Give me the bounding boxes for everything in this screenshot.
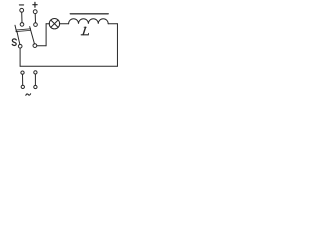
AC binding post left: link wire: [22, 74, 24, 85]
wire: riser up: [45, 24, 47, 46]
wire: left side up to switch: [19, 48, 21, 66]
AC binding post left: bottom terminal: [21, 85, 24, 88]
wire: switch right terminal to riser: [37, 45, 46, 47]
switch S: left support arm: [17, 31, 20, 44]
binding post negative: bottom terminal: [20, 23, 24, 27]
label minus (DC negative terminal mark): [19, 4, 23, 6]
AC binding post right: top terminal: [34, 71, 37, 74]
wire: riser top to lamp: [46, 23, 50, 25]
label tilde (AC mark): [26, 94, 31, 96]
wire: coil to top-right corner: [108, 23, 117, 25]
label plus (DC positive terminal mark): [33, 2, 37, 7]
AC binding post right: bottom terminal: [34, 85, 37, 88]
lamp (circle with X): [49, 19, 59, 29]
switch S: left terminal: [18, 44, 22, 48]
wire: lamp to inductor: [59, 23, 68, 25]
AC binding post left: top terminal: [21, 71, 24, 74]
switch S: blade (double line): [16, 29, 31, 32]
label S: [12, 39, 16, 46]
switch S: right support arm: [30, 27, 35, 44]
binding post positive: bottom terminal: [34, 23, 38, 27]
wire: bottom run: [20, 65, 117, 67]
switch S: right terminal: [33, 44, 37, 48]
label L: [81, 27, 88, 35]
inductor L: iron core bar: [70, 13, 108, 15]
binding post positive: link wire: [34, 14, 36, 23]
wire: right side down: [116, 24, 118, 66]
AC binding post right: link wire: [34, 74, 36, 85]
inductor L: coil (4 humps): [69, 19, 109, 24]
binding post positive: top terminal: [33, 10, 37, 14]
binding post negative: top terminal: [20, 8, 24, 12]
switch S: handle tick: [15, 25, 17, 32]
binding post negative: link wire: [21, 12, 23, 23]
